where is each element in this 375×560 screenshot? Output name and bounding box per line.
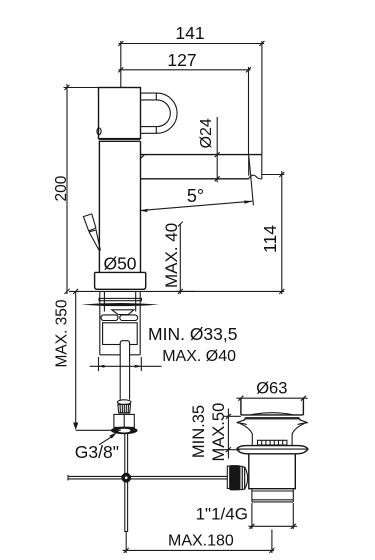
dimension Ø63: [236, 397, 307, 399]
washer plate: [99, 298, 142, 300]
base flange Ø50: [95, 272, 146, 289]
G3/8 nut bottom ring: [111, 427, 138, 435]
dimension 5 degrees: [140, 157, 254, 210]
drain cap bottom face: [251, 413, 294, 415]
supply pipe: [120, 341, 129, 400]
dimension G3/8" leader: [99, 435, 115, 445]
handle loop: [141, 93, 178, 133]
dimension 127: [119, 67, 251, 155]
spout tip aerator: [249, 155, 262, 179]
drain seal disc: [244, 417, 301, 420]
drain tail 1 1/4G: [252, 489, 293, 502]
spout root chamfer: [140, 155, 145, 160]
G3/8 knurled collar: [118, 404, 131, 412]
svg-text:MIN.35: MIN.35: [190, 405, 208, 458]
svg-text:200: 200: [53, 175, 70, 201]
G3/8 collar ring: [117, 400, 131, 405]
dimension MIN.35 MAX.50: [224, 409, 241, 459]
svg-text:MAX. 350: MAX. 350: [53, 299, 70, 367]
drain seal wings: [237, 420, 308, 425]
svg-text:MAX.180: MAX.180: [168, 532, 234, 549]
dimension MAX.180: [123, 530, 275, 554]
drain cap: [241, 398, 304, 415]
dimension 200: [64, 84, 99, 294]
spout: [141, 155, 262, 179]
temperature lever: [83, 214, 96, 231]
dimension Ø24: [216, 117, 218, 182]
drain rod connector boss: [245, 467, 248, 490]
svg-text:Ø63: Ø63: [256, 379, 287, 397]
drain flange: [237, 446, 308, 454]
svg-text:MAX. Ø40: MAX. Ø40: [162, 348, 236, 365]
svg-text:141: 141: [175, 23, 204, 43]
dimension 141: [119, 41, 265, 155]
svg-text:Ø50: Ø50: [103, 253, 136, 273]
pull rod / hose: [124, 434, 128, 532]
body ridge joint: [99, 140, 140, 142]
drain rod connector knurl: [230, 466, 240, 490]
threaded shank outer: [100, 291, 140, 354]
svg-text:1"1/4G: 1"1/4G: [196, 505, 248, 524]
valve body: [103, 323, 138, 345]
mounting nut left lobe: [101, 315, 118, 321]
G3/8 nut: [114, 414, 134, 427]
handle pivot detail: [97, 128, 101, 135]
svg-text:MAX. 40: MAX. 40: [162, 223, 181, 288]
svg-text:127: 127: [167, 50, 196, 70]
drain knurl band: [258, 440, 287, 445]
faucet handle cap: [99, 88, 141, 139]
gasket lens: [81, 303, 160, 306]
svg-text:Ø24: Ø24: [198, 118, 215, 148]
dimension MAX. 350: [76, 291, 121, 430]
nut tab: [112, 310, 134, 315]
countertop reference line: [69, 290, 284, 292]
drain body: [249, 453, 295, 489]
dimension MAX. 40: [176, 224, 195, 294]
svg-text:G3/8": G3/8": [75, 442, 119, 462]
drain bell: [240, 423, 305, 433]
faucet body: [99, 141, 140, 272]
svg-text:114: 114: [260, 225, 280, 253]
mounting nut right lobe: [120, 315, 138, 321]
ball joint: [121, 473, 131, 483]
dimension hole MIN Ø33,5 MAX Ø40: [90, 357, 162, 371]
drain neck: [252, 434, 292, 446]
dimension 114: [262, 171, 284, 294]
svg-text:MIN. Ø33,5: MIN. Ø33,5: [148, 324, 237, 344]
threaded shank inner: [104, 291, 135, 311]
dimension 1"1/4G: [249, 503, 298, 529]
svg-text:MAX.50: MAX.50: [210, 403, 228, 462]
horizontal pop-up rod: [68, 475, 228, 481]
svg-text:5°: 5°: [187, 186, 204, 206]
